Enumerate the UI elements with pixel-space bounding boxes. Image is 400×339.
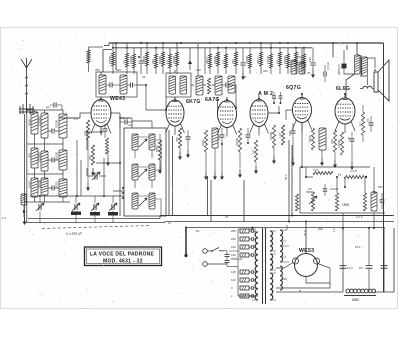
coil L9 xyxy=(59,179,67,197)
coil L19 xyxy=(132,193,138,209)
svg-text:300: 300 xyxy=(88,155,92,160)
svg-text:500: 500 xyxy=(378,185,383,189)
wire bottom rail xyxy=(238,228,394,296)
svg-text:0,5: 0,5 xyxy=(308,187,312,191)
svg-text:MOD. 4631 - 32: MOD. 4631 - 32 xyxy=(103,259,143,265)
coil L11 xyxy=(215,76,222,95)
resistor R5 xyxy=(155,54,158,68)
coil L7 xyxy=(59,114,67,138)
svg-text:25000: 25000 xyxy=(129,56,133,64)
svg-text:B: B xyxy=(272,289,274,293)
svg-text:1 F: 1 F xyxy=(291,60,295,64)
secondary winding 2 xyxy=(280,230,283,262)
svg-text:480 F: 480 F xyxy=(256,56,260,64)
wire filter v3 xyxy=(383,228,385,292)
capacitor C28 xyxy=(53,103,55,108)
svg-text:4 F: 4 F xyxy=(122,60,126,64)
svg-text:1 F: 1 F xyxy=(221,60,225,64)
tube 6Q7G xyxy=(293,98,312,123)
resistor R8 xyxy=(176,52,179,66)
wire ladder row3 xyxy=(27,174,63,179)
selector tap 125 xyxy=(240,270,249,274)
coil L4 xyxy=(41,113,48,138)
resistor R23 xyxy=(158,140,161,160)
svg-text:130: 130 xyxy=(297,55,302,59)
wire ladder top xyxy=(27,110,63,114)
resistor R37 xyxy=(295,194,298,211)
svg-text:245: 245 xyxy=(231,229,236,233)
resistor R33 xyxy=(361,112,364,135)
resistor R13 xyxy=(249,54,252,68)
svg-text:25: 25 xyxy=(347,136,351,140)
wire 6K7G drop 2 xyxy=(172,136,174,216)
svg-text:320: 320 xyxy=(263,69,268,73)
coil box 500 xyxy=(21,194,27,205)
svg-text:2 M: 2 M xyxy=(313,168,318,172)
resistor R20 xyxy=(207,78,210,94)
svg-text:1 F: 1 F xyxy=(251,150,255,154)
power transformer core xyxy=(262,228,264,304)
speaker xyxy=(374,60,389,101)
svg-text:10000: 10000 xyxy=(55,152,59,160)
svg-text:ant: ant xyxy=(46,105,50,109)
capacitor C_T1a xyxy=(109,83,111,88)
svg-text:WE: WE xyxy=(318,227,323,231)
scan speckle xyxy=(9,33,394,306)
resistor R39 xyxy=(106,138,109,154)
svg-text:100: 100 xyxy=(288,131,292,136)
coil L14 xyxy=(299,62,305,74)
osc arrows xyxy=(139,139,147,147)
ground G1 xyxy=(87,183,89,188)
svg-text:50000: 50000 xyxy=(108,56,112,64)
ground G4 xyxy=(179,152,181,157)
ground G6 xyxy=(205,172,207,177)
ground G9 xyxy=(239,170,241,175)
selector tap 220 xyxy=(240,237,249,241)
svg-text:300: 300 xyxy=(282,277,287,281)
svg-text:0,1 F: 0,1 F xyxy=(356,215,363,219)
capacitor C21 xyxy=(340,265,347,267)
selector tap 245 xyxy=(240,229,249,233)
wire AM2 plate xyxy=(258,95,260,100)
svg-text:50000: 50000 xyxy=(269,132,273,140)
wire 6A7 drop 1 xyxy=(207,176,209,216)
ground G10 xyxy=(255,166,257,171)
selector tap 140 xyxy=(240,253,249,257)
svg-text:25: 25 xyxy=(142,75,146,79)
coil T2a xyxy=(169,76,176,94)
wire tone drop1 xyxy=(342,213,344,228)
svg-text:25 F: 25 F xyxy=(355,245,361,249)
coil L1 xyxy=(31,112,38,134)
svg-text:1 F: 1 F xyxy=(165,60,169,64)
wire trimmer rail xyxy=(30,195,124,197)
tube 6L6G xyxy=(335,98,355,124)
junction dots various xyxy=(26,84,375,229)
svg-text:50000: 50000 xyxy=(213,56,217,64)
wire grid long1 xyxy=(110,113,120,128)
resistor R9 xyxy=(209,54,212,68)
wire T1 to 6K7G xyxy=(137,85,166,110)
wire AM2 drop xyxy=(243,180,245,222)
wire 6A7 drop 2 xyxy=(210,180,212,222)
mains switch xyxy=(207,248,224,252)
svg-text:300: 300 xyxy=(151,59,155,64)
switch contacts xyxy=(122,187,124,189)
svg-text:50000: 50000 xyxy=(158,56,162,64)
mains terminal 1 xyxy=(203,249,208,254)
wire 6L6G top xyxy=(344,94,346,98)
wire filter v2 xyxy=(368,228,370,266)
svg-text:10000: 10000 xyxy=(266,56,270,64)
wire WE53 plate xyxy=(305,222,307,254)
svg-text:8 F: 8 F xyxy=(366,118,370,122)
svg-text:16 F: 16 F xyxy=(347,266,353,270)
capacitor C_T1b xyxy=(129,83,131,88)
coil L3 xyxy=(31,178,38,197)
resistor R11 xyxy=(225,54,228,68)
coil L18 xyxy=(149,164,155,180)
coil L21 xyxy=(212,128,218,148)
wire ladder bottoms xyxy=(35,134,64,202)
variable capacitor CV1 xyxy=(38,204,40,210)
svg-text:150: 150 xyxy=(330,139,334,144)
wire bus left drop xyxy=(103,43,116,72)
capacitor C_lad1 xyxy=(51,129,53,134)
svg-text:AT: AT xyxy=(225,215,229,219)
capacitor C29 xyxy=(124,120,126,125)
resistor R24 xyxy=(178,128,181,148)
wire T2 to 6A7 xyxy=(191,85,236,114)
svg-text:100: 100 xyxy=(28,153,32,158)
wire 6Q7G grid xyxy=(286,110,293,120)
wire box left xyxy=(119,115,121,216)
power transformer secondary b xyxy=(270,254,273,270)
coil L8 xyxy=(59,150,67,170)
svg-text:1898: 1898 xyxy=(342,203,349,207)
output transformer T3 primary xyxy=(355,55,361,74)
svg-text:320: 320 xyxy=(116,68,121,72)
resistor R32 xyxy=(340,132,343,155)
svg-text:250: 250 xyxy=(95,68,100,72)
capacitor C11 xyxy=(103,128,108,130)
capacitor C12 xyxy=(186,136,191,138)
wire under WE43 xyxy=(87,127,101,151)
power transformer primary xyxy=(255,232,258,300)
resistor R1 xyxy=(112,52,115,66)
wire mains2 xyxy=(207,264,238,296)
svg-text:130: 130 xyxy=(196,68,201,72)
wire bottom bus 1b xyxy=(28,218,160,220)
resistor R34 xyxy=(313,171,333,174)
resistor R2 xyxy=(126,53,129,67)
wire HT vertical 1 xyxy=(288,140,290,222)
svg-text:100: 100 xyxy=(217,135,221,140)
wire G1 xyxy=(87,150,89,183)
ground G8 xyxy=(221,172,223,177)
svg-text:100000: 100000 xyxy=(38,152,42,162)
wire tone wires xyxy=(302,123,374,194)
IF transformer T1 box xyxy=(96,72,137,97)
svg-text:20000: 20000 xyxy=(235,138,239,146)
wire filter v1 xyxy=(342,228,344,292)
variable capacitor CV1c xyxy=(93,204,95,210)
wire HT vertical 2 xyxy=(291,145,293,216)
svg-text:300: 300 xyxy=(175,137,179,142)
selector tap x xyxy=(240,294,249,298)
svg-text:100: 100 xyxy=(308,57,312,62)
wire bottom bus 3 xyxy=(186,227,385,229)
svg-text:25 F: 25 F xyxy=(303,230,307,236)
ground G15 xyxy=(351,162,353,167)
potentiometer P2 xyxy=(335,193,338,211)
ground G11 xyxy=(273,156,275,161)
coil L5 xyxy=(41,151,48,171)
resistor R14 xyxy=(260,52,263,66)
svg-text:0,1: 0,1 xyxy=(358,122,362,126)
resistor R3 xyxy=(133,54,136,68)
band switch box xyxy=(124,128,166,216)
svg-text:LA VOCE DEL PADRONE: LA VOCE DEL PADRONE xyxy=(90,252,155,258)
secondary winding 2 leads xyxy=(280,230,287,262)
svg-text:1 F: 1 F xyxy=(332,228,336,232)
coil L23 xyxy=(371,192,377,211)
resistor R22 xyxy=(91,145,94,165)
capacitor C25 xyxy=(279,95,283,97)
selector tap 110 xyxy=(240,278,249,282)
coil L16 xyxy=(149,134,155,150)
selector tap 0 xyxy=(240,286,249,290)
svg-text:4 F: 4 F xyxy=(275,60,279,64)
svg-text:4500: 4500 xyxy=(28,119,32,126)
svg-text:3 x 450 pF: 3 x 450 pF xyxy=(66,231,82,236)
svg-text:50 F: 50 F xyxy=(284,174,288,180)
svg-text:1 F: 1 F xyxy=(74,117,78,121)
svg-text:10000: 10000 xyxy=(142,56,146,64)
ground left xyxy=(24,217,26,222)
wire mid horiz 1 xyxy=(60,117,80,119)
svg-text:osc: osc xyxy=(128,123,133,127)
ground top2 xyxy=(312,70,314,75)
resistor R18 xyxy=(295,52,298,66)
svg-text:10000: 10000 xyxy=(55,120,59,128)
variable capacitor CV1d xyxy=(111,204,113,210)
wire top mid drops xyxy=(190,43,205,76)
svg-text:6,3: 6,3 xyxy=(282,255,286,259)
wire 6Q7G top xyxy=(301,94,303,98)
wire tone drop2 xyxy=(373,213,375,228)
resistor R10 xyxy=(217,52,220,66)
tube WE43 xyxy=(91,100,111,127)
svg-text:6K7G: 6K7G xyxy=(186,99,201,105)
secondary winding 3 xyxy=(280,266,282,290)
svg-text:1 M: 1 M xyxy=(278,133,282,138)
gang line 3x450pF xyxy=(42,226,150,229)
wire 6A7 plate xyxy=(226,97,228,101)
capacitor C_lad2 xyxy=(51,158,53,163)
resistor R15 xyxy=(270,54,273,68)
resistor R30 xyxy=(311,128,314,150)
mains terminal 2 xyxy=(203,262,208,267)
ground G12 xyxy=(292,158,294,163)
svg-text:5000: 5000 xyxy=(55,181,59,188)
capacitor C10 xyxy=(225,83,227,88)
capacitor C26 xyxy=(323,188,328,190)
tube 6A7G xyxy=(218,101,237,128)
svg-text:480 F: 480 F xyxy=(299,58,303,66)
capacitor C19 xyxy=(342,64,347,69)
svg-text:2000 pF: 2000 pF xyxy=(337,64,341,75)
svg-text:220: 220 xyxy=(231,237,236,241)
svg-text:4 M: 4 M xyxy=(83,131,87,136)
selector tap 160 xyxy=(240,245,249,249)
ground G16 xyxy=(107,158,109,163)
tube 6K7G xyxy=(166,100,184,126)
wire bottom bus 2b xyxy=(165,222,394,223)
voice coil xyxy=(363,86,372,88)
wire right frame xyxy=(383,43,385,292)
wire WE53 out xyxy=(306,277,330,284)
svg-text:110: 110 xyxy=(231,278,236,282)
coil T1b xyxy=(120,75,127,94)
capacitor C24 xyxy=(272,95,276,97)
wire WE53 fil 1 xyxy=(276,263,293,269)
coil T2b xyxy=(180,76,187,94)
capacitor C20 xyxy=(225,253,230,255)
power transformer secondary a xyxy=(270,231,273,251)
capacitor C23 xyxy=(381,265,388,267)
svg-text:160: 160 xyxy=(231,245,236,249)
resistor R35 xyxy=(344,175,364,178)
svg-text:10000: 10000 xyxy=(330,187,338,191)
svg-text:50000: 50000 xyxy=(283,56,287,64)
svg-text:00000: 00000 xyxy=(38,180,42,188)
svg-text:8 F: 8 F xyxy=(100,130,104,134)
wire screened lead xyxy=(24,114,26,222)
output transformer T3 core xyxy=(360,55,362,77)
wire speaker xyxy=(360,58,375,89)
capacitor C17 xyxy=(369,122,374,124)
tube AM2 xyxy=(250,100,268,127)
svg-text:H: H xyxy=(338,172,341,177)
title box xyxy=(85,247,162,266)
output transformer T3 secondary xyxy=(362,57,368,76)
svg-text:1000: 1000 xyxy=(28,181,32,188)
wire osc top link xyxy=(120,118,152,128)
svg-text:6Q7G: 6Q7G xyxy=(286,85,301,91)
resistor R29 xyxy=(281,125,284,145)
capacitor C18 xyxy=(380,199,385,201)
wire 6L6G plate to OT xyxy=(346,74,355,98)
tone box xyxy=(300,167,385,213)
resistor R36 xyxy=(363,193,366,211)
wire bottom bus 1 xyxy=(160,216,394,219)
IF transformer T2 box xyxy=(166,73,191,97)
potentiometer P1 xyxy=(311,192,314,211)
wire ladder row2 xyxy=(27,144,63,151)
antenna xyxy=(21,58,32,104)
resistor R17 xyxy=(287,54,290,68)
svg-text:WE43: WE43 xyxy=(110,96,125,102)
svg-text:10000: 10000 xyxy=(337,140,341,148)
antenna coil xyxy=(19,104,34,114)
capacitor C13 xyxy=(220,134,225,136)
ground top1 xyxy=(242,72,244,77)
svg-text:0,5 M: 0,5 M xyxy=(350,169,358,173)
svg-text:5000: 5000 xyxy=(308,135,312,142)
coil L17 xyxy=(132,164,138,180)
variable capacitor CV2 xyxy=(94,173,96,180)
capacitor C15 xyxy=(291,130,296,132)
resistor R31 xyxy=(333,130,336,152)
wire WE43 plate xyxy=(100,72,102,97)
ground G14 xyxy=(334,160,336,165)
wire selector spine xyxy=(229,228,253,267)
ground G3 xyxy=(159,166,161,171)
svg-text:100000: 100000 xyxy=(38,116,42,126)
wire WE53 fil 2 xyxy=(276,264,330,289)
wire ladder bottom bus xyxy=(24,201,70,203)
coil L22 xyxy=(319,128,326,150)
svg-text:25000: 25000 xyxy=(172,56,176,64)
resistor R38 xyxy=(87,50,90,63)
wire mains lead xyxy=(185,228,187,255)
junction dots tone xyxy=(305,176,375,193)
wire heater up xyxy=(285,225,289,262)
resistor R25 xyxy=(204,130,207,152)
power transformer leads xyxy=(252,231,276,300)
tube WE53 xyxy=(295,254,318,277)
resistor R26 xyxy=(238,128,241,152)
svg-text:140: 140 xyxy=(231,253,236,257)
capacitor C22 xyxy=(366,265,373,267)
coil L6 xyxy=(41,178,48,195)
coil L2 xyxy=(31,148,38,168)
junction dots bus xyxy=(138,42,297,58)
junction dots buses xyxy=(112,42,358,49)
svg-text:125: 125 xyxy=(231,270,236,274)
svg-text:5000: 5000 xyxy=(155,145,159,152)
svg-text:25000: 25000 xyxy=(245,56,249,64)
capacitor C27 xyxy=(323,72,325,77)
wire sel top xyxy=(248,228,256,230)
wire top B+ bus xyxy=(109,42,384,44)
svg-text:WE53: WE53 xyxy=(299,248,314,254)
wire AM2 to 6Q7G xyxy=(268,106,279,113)
resistor R7 xyxy=(169,54,172,68)
ground G2 xyxy=(92,168,94,173)
resistor R4 xyxy=(146,52,149,66)
capacitor C_top3 xyxy=(311,62,316,64)
ground G7 xyxy=(214,172,216,177)
ground G13 xyxy=(321,158,323,163)
capacitor C_top2 xyxy=(241,62,246,64)
resistor R27 xyxy=(254,140,257,162)
resistor R19 xyxy=(303,54,306,68)
svg-text:4 m: 4 m xyxy=(2,216,7,220)
coil L20 xyxy=(149,193,155,209)
svg-text:B: B xyxy=(299,289,301,293)
wire OT top drops xyxy=(333,43,357,57)
svg-text:25: 25 xyxy=(307,71,311,75)
svg-text:5000: 5000 xyxy=(201,139,205,146)
variable capacitor CV1b xyxy=(74,204,76,210)
svg-text:B+: B+ xyxy=(196,229,200,233)
svg-text:100 pF: 100 pF xyxy=(326,62,330,70)
coil T1a xyxy=(99,75,106,94)
capacitor C16 xyxy=(350,138,355,140)
